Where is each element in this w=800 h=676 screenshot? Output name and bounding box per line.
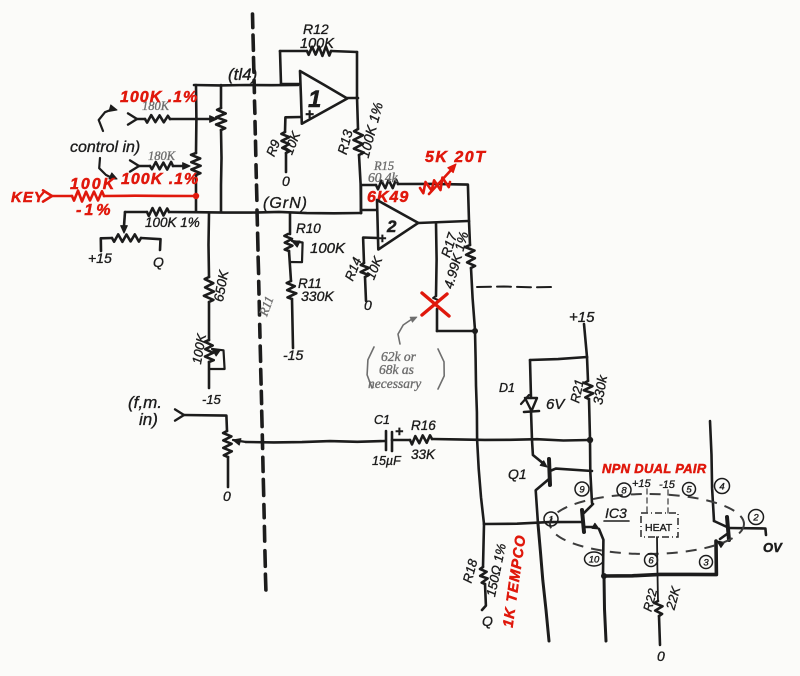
resistor 180K input2 [150,162,173,170]
fm input chevron [175,409,184,420]
wire R17 node down [475,331,484,524]
resistor R16 33K [410,435,432,444]
wire base node vertical [590,440,592,503]
wire GRN to R10 [289,213,292,234]
wire down to pot wiper [124,212,125,226]
HEAT -15 lead [667,490,669,513]
capacitor C1 plates [385,431,388,450]
pin 1 [544,512,558,526]
svg-text:15µF: 15µF [372,454,402,468]
crossed wire with 62k resistor sketch [435,223,438,296]
trimmer A zigzag [191,153,201,175]
wire Q1 collector down to page bottom [538,524,549,641]
R10 wiper bracket [292,241,300,247]
wire right base to OV [729,528,766,535]
svg-text:100K: 100K [189,331,209,365]
sketchy stub wire right [477,286,556,289]
red junction dot [193,193,199,199]
svg-text:(tl4): (tl4) [228,65,257,84]
trimmer B zigzag [216,108,226,130]
svg-text:KEY: KEY [11,189,46,206]
svg-text:100K 1%: 100K 1% [145,215,200,230]
svg-text:60.4k: 60.4k [368,170,399,185]
op-amp U1 minus input wire [281,83,300,86]
potentiometer +15/Q zigzag [112,234,141,242]
resistor R14 10K [361,263,369,277]
fm pot wiper arrow [233,439,241,445]
op-amp U1 plus input wire [285,117,301,132]
svg-text:6K49: 6K49 [367,189,409,206]
svg-text:2: 2 [386,217,397,236]
HEAT +15 lead [646,489,648,513]
wire emitter bottom rail [604,541,716,576]
resistor 180K input1 [145,115,170,123]
svg-text:0: 0 [223,488,231,504]
svg-text:330k: 330k [590,373,610,406]
wire R11 to -15 [292,299,293,348]
svg-text:100K .1%: 100K .1% [121,171,199,188]
op-amp U1 triangle [300,71,347,124]
wire R13 node to R15 [360,185,363,213]
svg-text:IC3: IC3 [605,505,627,521]
svg-text:Q1: Q1 [508,466,527,482]
curved arrow down [99,158,112,178]
wire vertical line B [220,85,223,108]
fm potentiometer [223,431,232,457]
svg-text:100K: 100K [300,36,335,52]
pin 10 [585,552,604,566]
wire HEAT to R22 [657,537,658,601]
pin 5 [683,483,696,496]
svg-text:0: 0 [364,297,372,313]
curved arrow up [99,109,113,131]
red X cross stroke 1 [422,293,449,316]
svg-text:5: 5 [686,484,692,495]
svg-text:R18: R18 [460,557,481,585]
wire fm to C1 [246,441,385,442]
wire R12 right vertical [356,52,359,97]
pin 2 [749,510,764,525]
note curved arrow to X [398,319,412,344]
wire to -15 [208,362,211,388]
svg-text:-15: -15 [202,392,222,407]
dashed module boundary line [251,14,255,28]
junction dot R17 bottom [472,328,478,334]
op-amp U2 output wire [418,221,468,223]
svg-text:10: 10 [589,554,600,565]
svg-text:+: + [305,106,314,123]
wire 650K chain top [207,213,210,277]
resistor R15 60.4k [376,180,398,190]
red KEY chevron [43,190,52,201]
pin 9 [575,482,589,496]
resistor R18 150ohm [483,524,484,567]
wire R16 to Q1 base node [432,439,589,441]
svg-text:control in): control in) [70,139,140,156]
svg-text:100K: 100K [310,240,346,257]
svg-text:HEAT: HEAT [645,522,673,534]
resistor 100K 1% [147,208,169,216]
resistor R21 330k [587,357,588,381]
pot right lead [141,238,161,250]
svg-text:100K 1%: 100K 1% [356,100,386,159]
junction dot base node [587,437,593,443]
diode D1 6V zener [530,360,531,398]
input 1 chevron [128,113,137,124]
svg-text:+15: +15 [632,478,652,490]
note right paren [438,349,444,389]
svg-text:5K 20T: 5K 20T [425,149,486,166]
svg-text:C1: C1 [374,413,390,427]
resistor R22 22K [654,601,662,616]
wire R10 to R11 [289,251,291,281]
svg-text:4: 4 [719,481,724,492]
svg-text:necessary: necessary [368,376,421,391]
svg-text:6: 6 [648,555,654,566]
svg-text:OV: OV [763,540,783,555]
wire fm pot to 0 [227,457,230,487]
svg-text:Q: Q [153,254,164,270]
svg-text:+15: +15 [569,309,595,326]
wire R12 top [280,50,307,53]
svg-text:33K: 33K [411,447,436,462]
svg-text:8: 8 [621,485,627,496]
wire input1 to trimmer B [170,118,212,121]
op-amp U2 minus wire [361,209,377,212]
svg-text:1: 1 [548,514,553,525]
red wire KEY to node [104,194,196,197]
wire 650K to 100K trim [208,302,211,340]
pot left lead [101,238,112,251]
svg-text:R14: R14 [342,255,365,283]
red resistor 100K -1% [72,191,104,202]
svg-text:Q: Q [482,613,493,629]
pin 8 [617,483,631,497]
wire input2 to trimmer A [173,165,185,168]
op-amp U1 feedback left vertical [280,51,281,84]
red X cross stroke 2 [422,294,447,315]
wire R13 to node [359,155,361,213]
resistor R11 330K [287,281,297,299]
dashed package outline IC3 [550,494,744,554]
resistor R12 [307,46,331,56]
resistor R10 100K trimmer [284,234,292,251]
wire C1 to R16 [392,439,410,442]
wire vertical line A [195,85,198,153]
svg-text:0: 0 [282,173,290,189]
wire base rail [484,522,581,524]
wire fm input [184,415,227,431]
resistor 650K [204,277,214,302]
wire R15 to corner [398,184,469,221]
svg-text:650K: 650K [211,268,231,303]
HEAT resistor box [641,513,678,537]
wire +15 rail to D1 [530,357,587,360]
op-amp U2 triangle [377,200,418,250]
pin 3 [700,556,713,569]
wire +15 lead [584,324,587,357]
resistor R13 [354,129,364,155]
svg-text:100K: 100K [70,176,116,193]
svg-text:100K .1%: 100K .1% [120,89,198,106]
svg-text:6V: 6V [546,396,566,413]
wire R9 to 0 [285,153,288,172]
svg-text:0: 0 [657,648,665,664]
wire left emitter to page bottom [604,576,606,641]
svg-text:22K: 22K [663,584,684,612]
svg-text:68k as: 68k as [379,362,414,377]
svg-text:+15: +15 [88,250,112,266]
svg-text:R13: R13 [335,128,356,156]
svg-text:2: 2 [752,512,759,523]
junction dot emitter rail [601,573,607,579]
red variable resistor 5K 20T [420,178,450,194]
resistor R17 4.99K [469,221,470,245]
transistor IC3 right half [710,421,714,521]
input 2 chevron [130,160,139,171]
svg-text:-15: -15 [659,479,676,491]
wire output down to R13 [357,97,358,129]
transistor IC3 left half [582,510,584,532]
svg-text:(GrN): (GrN) [263,195,308,212]
svg-text:9: 9 [579,484,585,495]
red wire KEY [52,195,72,198]
wire R15 left [361,184,376,187]
svg-text:R9: R9 [263,138,283,159]
svg-text:R12: R12 [303,21,329,37]
pin 4 [715,479,730,494]
wire GRN rail [125,211,147,214]
wire input2 [139,165,150,168]
op-amp U1 output wire [347,97,358,100]
svg-text:R21: R21 [567,378,587,404]
trimmer 100K [205,340,214,362]
svg-text:3: 3 [703,557,709,568]
trimmer wiper bracket [212,349,220,356]
pin 6 [645,554,658,567]
transistor Q1 [532,440,544,464]
svg-text:-15: -15 [283,347,303,363]
note left paren [367,347,374,388]
wire R14 to 0 [365,277,366,301]
svg-text:R10: R10 [296,221,321,236]
wire input1 [137,118,145,121]
resistor R9 10K [281,132,289,153]
svg-text:D1: D1 [499,381,515,395]
svg-text:NPN DUAL PAIR: NPN DUAL PAIR [602,461,707,476]
svg-text:+: + [395,423,403,439]
wire top rail [194,84,298,87]
wire rectangle bottom [437,330,475,333]
svg-text:-1%: -1% [76,202,113,219]
svg-text:330K: 330K [301,288,334,304]
svg-text:R16: R16 [411,418,436,433]
op-amp U2 plus input wire [363,238,378,264]
svg-text:in): in) [139,410,158,429]
